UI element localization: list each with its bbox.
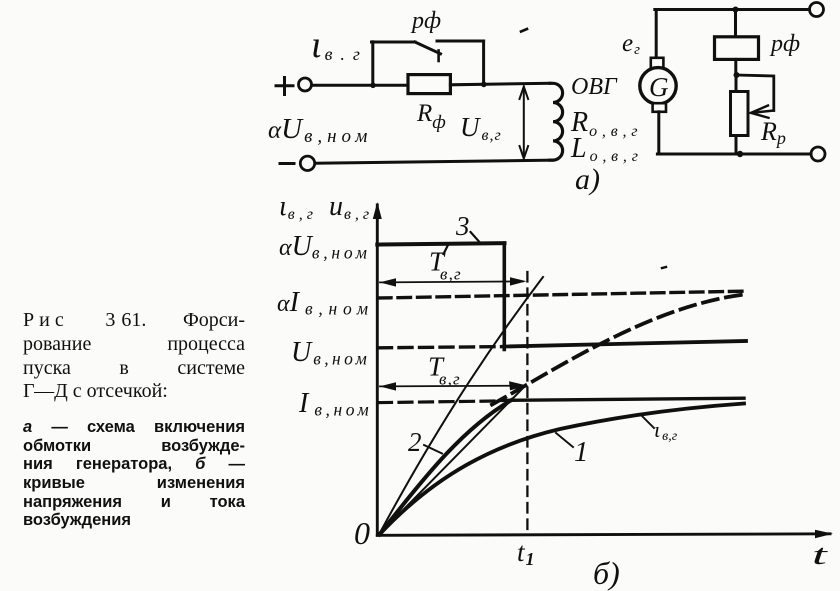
- level line I в,ном dashed part: [379, 401, 497, 403]
- node on top wire: [733, 7, 739, 13]
- label I в,ном (axis): [298, 388, 372, 420]
- wire: resistor to winding: [450, 83, 550, 85]
- generator G circle: [640, 68, 676, 104]
- plus terminal circle: [299, 78, 312, 91]
- wire: rheostat bottom to bottom wire: [735, 136, 738, 155]
- level line αU в,ном (forcing voltage, curve 3 top): [377, 243, 504, 244]
- leader of label 2: [424, 445, 442, 454]
- svg-text:3: 3: [455, 211, 470, 241]
- wire: generator top riser: [655, 10, 658, 59]
- ink speck near contact label: [521, 29, 527, 32]
- wire: coil to node: [734, 59, 737, 75]
- label Rр: [760, 117, 786, 148]
- label рф (contact): [410, 8, 441, 34]
- resistor Rф: [408, 75, 450, 94]
- svg-text:ОВГ: ОВГ: [571, 74, 618, 100]
- label 2: [408, 427, 422, 457]
- svg-text:αIв,ном: αIв,ном: [277, 287, 374, 319]
- curve 1: natural current rise (thick): [380, 404, 745, 535]
- switch fixed contact tick: [437, 51, 440, 62]
- wire: generator bottom riser: [657, 112, 660, 154]
- label αI в,ном (axis): [277, 287, 374, 319]
- generator letter G: [649, 72, 669, 102]
- label ОВГ: [571, 74, 618, 100]
- wire: left riser of contact branch: [371, 42, 374, 86]
- leader of label 1: [556, 433, 573, 447]
- minus terminal label: [280, 162, 294, 165]
- wire: top node down to relay coil: [734, 10, 737, 38]
- label ι в,г (curve 1): [654, 417, 678, 444]
- terminal circle bottom right: [811, 147, 825, 161]
- label Rф: [416, 100, 446, 133]
- x axis arrowhead: [815, 530, 833, 538]
- winding ОВГ (inductor coil): [550, 83, 563, 160]
- label T в,г: [428, 352, 461, 389]
- y axis arrowhead: [373, 202, 382, 219]
- svg-text:2: 2: [408, 427, 422, 457]
- node on bottom wire: [737, 151, 743, 157]
- thin tangent line to natural curve (reaches arrow tip at t1): [379, 387, 524, 535]
- figure caption text block: [23, 309, 245, 530]
- wire: top-left horizontal of contact branch: [372, 41, 416, 44]
- svg-text:рф: рф: [410, 8, 441, 34]
- svg-text:Rф: Rф: [416, 100, 446, 133]
- voltage arrow U в,г (double headed): [520, 87, 529, 159]
- svg-text:Rp: Rp: [760, 117, 786, 148]
- label U в,ном (axis): [291, 337, 370, 369]
- svg-text:αUв,ном: αUв,ном: [268, 113, 372, 147]
- svg-text:ιв,г: ιв,г: [654, 417, 678, 444]
- label αU в,ном (axis): [279, 231, 371, 263]
- wire: bottom horizontal to right terminal: [657, 153, 811, 156]
- wire: node to rheostat: [735, 75, 738, 92]
- svg-text:αUв,ном: αUв,ном: [279, 231, 371, 263]
- terminal circle top right: [810, 3, 824, 17]
- label а): [575, 163, 600, 196]
- svg-text:ιв.г: ιв.г: [311, 24, 368, 66]
- label αU в,ном: [268, 113, 372, 147]
- svg-text:б): б): [593, 555, 620, 591]
- leader of label ι в,г: [640, 414, 654, 428]
- curve 2: forced current rise (thick): [380, 400, 513, 535]
- svg-text:0: 0: [354, 515, 370, 551]
- svg-text:G: G: [649, 72, 669, 102]
- label б): [593, 555, 620, 591]
- svg-text:ιв,гuв,г: ιв,гuв,г: [279, 191, 373, 223]
- svg-text:1: 1: [574, 436, 589, 468]
- ink speck in graph area: [662, 267, 666, 268]
- switch contact рф blade: [415, 42, 441, 54]
- label t (abscissa): [812, 540, 828, 571]
- time constant arrow T' в,г: [380, 277, 527, 286]
- svg-text:ег: ег: [622, 30, 640, 58]
- rheostat tap wire: [737, 75, 774, 111]
- wire: bottom from minus terminal to winding: [315, 160, 553, 163]
- level line I в,ном solid part after cutoff: [502, 398, 744, 400]
- svg-text:Uв,г: Uв,г: [460, 112, 502, 144]
- level line U в,ном dashed part before cutoff: [379, 347, 505, 348]
- node: right junction: [481, 82, 487, 88]
- node: left junction: [370, 83, 376, 89]
- label е г: [622, 30, 640, 58]
- svg-text:Tв,г: Tв,г: [428, 352, 461, 389]
- generator G brush bottom: [653, 103, 666, 112]
- x axis: [377, 534, 830, 536]
- label t1 under cutoff: [517, 537, 535, 569]
- label рф (coil): [769, 31, 800, 57]
- time constant arrow T в,г: [380, 381, 528, 390]
- svg-text:Iв,ном: Iв,ном: [298, 388, 372, 420]
- plus terminal label: [276, 78, 293, 95]
- vertical dashed line at t1: [526, 272, 528, 535]
- level line U в,ном solid part after cutoff: [504, 341, 746, 347]
- rheostat Rр body: [731, 92, 749, 136]
- label 0 (origin): [354, 515, 370, 551]
- wire: plus terminal to resistor Rф: [312, 84, 408, 87]
- wire: top-right horizontal of contact branch: [437, 40, 484, 43]
- label U в,г: [460, 112, 502, 144]
- label 1: [574, 436, 589, 468]
- minus terminal circle: [300, 156, 314, 170]
- dashed continuation of forced curve toward αI: [492, 295, 744, 405]
- svg-text:рф: рф: [769, 31, 800, 57]
- label i в.г: [311, 24, 368, 66]
- label R о,в,г: [570, 107, 642, 140]
- svg-text:t: t: [812, 540, 828, 571]
- thin tangent line to forced curve (reaches αI at t1): [379, 277, 543, 535]
- label 3: [455, 211, 470, 241]
- y axis: [376, 205, 379, 535]
- generator G brush top: [651, 58, 664, 69]
- svg-text:t1: t1: [517, 537, 535, 569]
- relay coil рф: [715, 37, 759, 60]
- wire: top horizontal to right terminal: [655, 8, 810, 11]
- curve 3 vertical drop at cutoff: [502, 243, 506, 349]
- label i в,г u в,г (ordinate): [279, 191, 373, 223]
- label L о,в,г: [570, 133, 643, 165]
- wire: right riser of contact branch: [482, 41, 485, 84]
- rheostat tap arrow: [751, 106, 774, 118]
- leader of label 3: [471, 232, 480, 242]
- svg-text:а): а): [575, 163, 600, 196]
- node between coil and Rр: [734, 72, 740, 78]
- level line αI в,ном dashed: [379, 291, 745, 298]
- label T' в,г: [429, 247, 462, 284]
- svg-text:Uв,ном: Uв,ном: [291, 337, 370, 369]
